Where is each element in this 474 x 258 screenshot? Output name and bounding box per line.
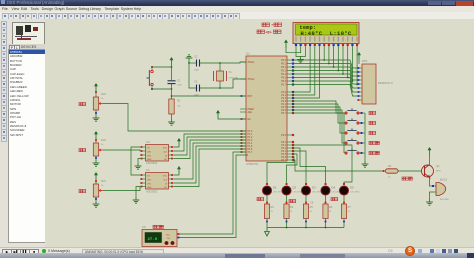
svg-text:ADC0832: ADC0832	[146, 190, 158, 194]
svg-text:H:40°C L:10°C: H:40°C L:10°C	[301, 31, 353, 37]
wire RV2 wiper run	[104, 104, 247, 132]
resistor R4	[284, 202, 294, 228]
wire U1 to LED D5	[292, 145, 352, 184]
buzzer BUZ1	[434, 178, 449, 202]
wire RV1 wiper to U3	[104, 187, 141, 191]
wire U4 DI to U1	[174, 137, 246, 155]
wire buzzer to ground	[430, 192, 435, 199]
svg-text:RP1: RP1	[362, 59, 368, 63]
svg-text:C2: C2	[194, 55, 198, 59]
wire U3 DO to U1	[174, 149, 246, 187]
svg-text:P2.3: P2.3	[281, 101, 286, 103]
led D1 LED-RED	[257, 183, 283, 204]
svg-text:BUZZER: BUZZER	[440, 199, 449, 201]
resistor R1	[169, 99, 182, 115]
svg-text:P3.1: P3.1	[281, 142, 286, 144]
svg-text:R2: R2	[388, 164, 392, 168]
node RV3 red label	[79, 149, 86, 152]
wire LCD data bus verticals	[323, 47, 358, 85]
resistor R7	[341, 202, 351, 228]
wire U4 DO to U1	[174, 140, 246, 159]
wire U1 to LED D2	[287, 154, 298, 184]
svg-text:LED-RED: LED-RED	[273, 192, 283, 194]
svg-text:C1: C1	[177, 79, 181, 83]
svg-text:P3.6: P3.6	[281, 157, 286, 159]
crystal X1	[214, 63, 240, 88]
button SW5	[345, 148, 380, 154]
svg-text:RV2: RV2	[101, 92, 107, 96]
svg-text:R4: R4	[290, 205, 294, 209]
node U5 red label	[153, 225, 163, 228]
svg-text:U1: U1	[246, 52, 250, 56]
power VCC for U3	[174, 166, 181, 175]
wire buttons common rail	[364, 113, 366, 161]
svg-text:P0.4: P0.4	[281, 74, 286, 76]
resistor R5	[303, 202, 313, 228]
wire reset button bottom	[152, 88, 172, 90]
potentiometer RV2	[93, 83, 106, 115]
node label C9	[310, 201, 314, 205]
svg-text:P0.7: P0.7	[281, 85, 286, 87]
wire Q1 emitter to buzzer	[430, 178, 435, 188]
svg-text:P1.5: P1.5	[248, 146, 253, 148]
button SW3	[345, 128, 376, 134]
resistor pack RP1 RESPACK-8	[357, 59, 393, 104]
svg-text:P3.5: P3.5	[281, 154, 286, 156]
wire LED cathode rail	[267, 227, 344, 229]
svg-text:U4: U4	[146, 140, 150, 144]
svg-text:EA: EA	[248, 118, 252, 121]
svg-text:<0>: <0>	[266, 31, 272, 35]
ground below RV2	[93, 115, 100, 121]
svg-text:R6: R6	[329, 205, 333, 209]
svg-text:R5: R5	[310, 205, 314, 209]
svg-text:ADC0832: ADC0832	[146, 161, 158, 165]
wire U1 to LED D4	[292, 148, 326, 184]
svg-text:D5: D5	[350, 186, 354, 190]
wire reset button top	[152, 66, 172, 68]
resistor R3	[264, 202, 274, 228]
button SW4	[345, 138, 380, 144]
svg-text:Q1: Q1	[436, 164, 440, 168]
svg-text:P0.6: P0.6	[281, 81, 286, 83]
capacitor C1	[168, 79, 183, 87]
wire U3 CLK to U1	[174, 143, 246, 179]
svg-text:10uF: 10uF	[177, 85, 183, 87]
svg-text:P2.5: P2.5	[281, 107, 286, 109]
svg-text:P1.1: P1.1	[248, 134, 253, 136]
ground below R1	[168, 119, 175, 125]
svg-text:LED-RED: LED-RED	[350, 192, 360, 194]
svg-text:R7: R7	[348, 205, 352, 209]
ground for LED rail	[265, 228, 270, 237]
wire LCD VSS VEE to ground	[296, 47, 305, 57]
svg-text:27.0: 27.0	[148, 238, 158, 242]
wire XTAL1 net	[200, 62, 247, 64]
svg-text:ALE: ALE	[248, 111, 253, 114]
svg-text:P3.2: P3.2	[281, 145, 286, 147]
svg-text:P2.2: P2.2	[281, 98, 286, 100]
svg-text:P1.4: P1.4	[248, 143, 253, 145]
svg-text:P3.7: P3.7	[281, 160, 286, 162]
button SW2	[345, 118, 376, 124]
svg-text:CH0: CH0	[147, 180, 151, 182]
svg-text:P0.5: P0.5	[281, 78, 286, 80]
ground for buttons	[362, 161, 369, 167]
ground for crystal caps	[186, 55, 193, 63]
svg-text:P2.7: P2.7	[281, 113, 286, 115]
adc U4 ADC0832	[140, 140, 174, 165]
svg-text:X1: X1	[229, 70, 233, 74]
svg-text:RV1: RV1	[101, 179, 107, 183]
wire U3 DI to U1	[174, 146, 246, 183]
svg-text:P1.2: P1.2	[248, 137, 253, 139]
svg-text:VCC: VCC	[163, 148, 168, 150]
svg-text:BUZ1: BUZ1	[440, 178, 448, 182]
power VCC for U4	[174, 138, 181, 147]
resistor R6	[323, 202, 333, 228]
wire RV3 wiper to U4	[104, 150, 141, 151]
node R2 red label buzzer	[402, 177, 412, 180]
power VCC for EA pin	[216, 110, 246, 119]
svg-text:P3.4: P3.4	[281, 151, 286, 153]
power VCC for Q1 collector	[428, 147, 432, 165]
resistor R2	[386, 164, 399, 179]
svg-text:D4: D4	[332, 186, 336, 190]
svg-text:D1: D1	[273, 186, 277, 190]
led D3 LED-RED	[301, 183, 322, 204]
wire U1 P2 to buttons feeds	[292, 101, 344, 153]
node red header label line1	[262, 23, 282, 27]
svg-text:RESPACK-8: RESPACK-8	[378, 81, 393, 85]
wire U4 CS link	[131, 147, 140, 175]
svg-text:P3.3: P3.3	[281, 148, 286, 150]
node red header label line2	[257, 30, 281, 35]
capacitor C2	[194, 55, 200, 72]
svg-text:P0.2: P0.2	[281, 67, 286, 69]
svg-text:P1.6: P1.6	[248, 149, 253, 151]
wire R2 to Q1 base	[398, 170, 421, 172]
lcd LCD1 LM016L display	[293, 23, 359, 48]
wire U3 GND to ground	[136, 187, 140, 198]
wire U5 DQ run to U1	[177, 155, 248, 238]
led D4 LED-RED	[321, 183, 342, 204]
ground below LCD	[297, 57, 304, 63]
svg-text:LED-RED: LED-RED	[312, 192, 322, 194]
wire R1 to ground	[171, 114, 173, 119]
ground below RV1	[93, 201, 100, 207]
svg-text:C9: C9	[310, 201, 314, 205]
wire RST net to U1	[171, 84, 246, 99]
wire U1 to LED D1	[267, 157, 294, 184]
wire U1 to LED D3	[292, 151, 306, 184]
node RV2 red label	[79, 103, 86, 106]
sensor U5 DS18B20 temperature sensor	[142, 225, 177, 247]
svg-text:U3: U3	[146, 168, 150, 172]
led D2 LED-RED	[282, 183, 303, 204]
power VCC for RP1	[357, 52, 361, 64]
reset button	[147, 66, 154, 90]
svg-text:P2.0: P2.0	[281, 92, 286, 94]
led D5 LED-RED	[339, 183, 360, 204]
svg-text:P2.4: P2.4	[281, 104, 286, 106]
svg-text:P1.0: P1.0	[248, 131, 253, 133]
svg-text:U5: U5	[142, 225, 146, 229]
svg-text:RST: RST	[248, 96, 253, 98]
potentiometer RV3	[93, 131, 106, 160]
svg-text:GND: GND	[147, 187, 152, 189]
capacitor C3	[194, 80, 200, 97]
svg-text:30pF: 30pF	[194, 70, 200, 72]
adc U3 ADC0832	[140, 168, 174, 194]
node RV1 red label	[79, 190, 86, 193]
ground below U4	[135, 163, 142, 169]
wire LCD RS to U1	[292, 47, 310, 92]
svg-text:PSEN: PSEN	[248, 109, 255, 111]
svg-text:XTAL2: XTAL2	[248, 78, 256, 81]
svg-text:P1.3: P1.3	[248, 140, 253, 142]
transistor Q1	[422, 164, 442, 178]
svg-text:VCC: VCC	[163, 176, 168, 178]
svg-text:RV3: RV3	[101, 138, 107, 142]
svg-text:CH0: CH0	[147, 152, 151, 154]
power VCC for reset	[170, 57, 174, 80]
svg-text:P0.1: P0.1	[281, 64, 286, 66]
power VCC for LCD VDD	[284, 40, 301, 53]
wire U1 to R2 base feed	[292, 160, 385, 172]
microcontroller U1 AT89C51	[246, 52, 287, 167]
U1 left pin stubs and pin names	[240, 61, 255, 154]
svg-text:P1.7: P1.7	[248, 152, 253, 154]
svg-text:P3.0: P3.0	[281, 135, 286, 137]
potentiometer RV1	[93, 172, 106, 201]
svg-text:P0.3: P0.3	[281, 71, 286, 73]
svg-text:P0.0: P0.0	[281, 60, 286, 62]
wire U5 VCC run to U1	[177, 152, 246, 235]
wire crystal gnd rail	[188, 62, 196, 88]
svg-text:R3: R3	[271, 205, 275, 209]
svg-text:CH1: CH1	[147, 184, 151, 186]
svg-text:GND: GND	[147, 159, 152, 161]
svg-text:NPN: NPN	[436, 171, 441, 173]
ground below RV3	[93, 160, 100, 166]
svg-text:VCC: VCC	[166, 235, 171, 237]
wire LCD RW to U1	[292, 47, 315, 95]
svg-text:AT89C51: AT89C51	[246, 162, 259, 166]
U1 right pin stubs and pin names	[281, 59, 294, 162]
wire P0 bus to RP1	[292, 60, 357, 96]
wire LCD E to U1	[292, 47, 320, 98]
svg-text:D2: D2	[293, 186, 297, 190]
wire XTAL2 net	[200, 79, 247, 89]
svg-text:D3: D3	[312, 186, 316, 190]
ground below buzzer	[426, 199, 433, 205]
button SW1	[345, 108, 376, 114]
svg-text:CH1: CH1	[147, 156, 151, 158]
svg-text:R1: R1	[177, 99, 181, 103]
svg-text:LED-RED: LED-RED	[293, 192, 303, 194]
svg-text:XTAL1: XTAL1	[248, 61, 256, 64]
svg-text:CRYSTAL: CRYSTAL	[229, 77, 240, 80]
wire U4 GND to ground	[138, 159, 140, 164]
svg-text:C3: C3	[194, 80, 198, 84]
wire U4 CLK to U1	[174, 134, 246, 151]
svg-text:P2.6: P2.6	[281, 110, 286, 112]
ground below U3	[133, 197, 140, 203]
svg-text:P2.1: P2.1	[281, 95, 286, 97]
